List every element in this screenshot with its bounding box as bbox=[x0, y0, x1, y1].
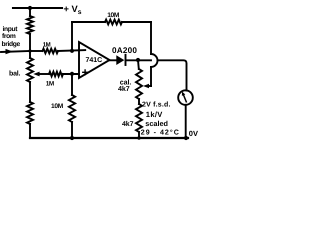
resistor 4k7 (meter shunt) bbox=[136, 104, 142, 132]
resistor 1M (non-inverting input) bbox=[49, 72, 63, 77]
wire: feedback top right segment bbox=[122, 21, 151, 23]
wire: R2 to 0V rail bbox=[29, 124, 31, 138]
wiper arm of bal pot bbox=[40, 73, 49, 75]
svg-text:4k7: 4k7 bbox=[122, 120, 134, 128]
wire: cal pot to 4k7 bbox=[138, 99, 140, 104]
svg-text:bal.: bal. bbox=[9, 70, 21, 78]
wire: feedback drop to cal wiper bbox=[150, 67, 152, 86]
diode OA200 bbox=[116, 55, 124, 65]
node: non-inverting input / 10M junction bbox=[70, 72, 74, 76]
resistor R1 (upper bridge arm) bbox=[27, 16, 33, 34]
resistor 1M (inverting input) bbox=[43, 49, 59, 54]
node: input junction bbox=[28, 49, 31, 52]
svg-text:input: input bbox=[3, 26, 19, 33]
wire: 1M to op-amp non-inverting input bbox=[63, 73, 79, 75]
wire: feedback right drop to hop bbox=[150, 22, 152, 54]
svg-text:1M: 1M bbox=[46, 81, 54, 88]
node: 10M / 0V rail junction bbox=[70, 136, 74, 140]
svg-text:scaled: scaled bbox=[145, 119, 168, 128]
potentiometer bal (balance) body bbox=[27, 58, 33, 82]
wire: op-amp output to diode bbox=[110, 59, 117, 61]
wire: feedback riser bbox=[71, 22, 73, 51]
svg-text:+ Vs: + Vs bbox=[64, 4, 82, 16]
wire: junction down to 10M bbox=[71, 74, 73, 95]
node: output / cal pot junction bbox=[136, 58, 140, 62]
svg-text:10M: 10M bbox=[107, 12, 120, 19]
node: inverting input / feedback junction bbox=[70, 49, 74, 53]
svg-text:0V: 0V bbox=[189, 129, 198, 138]
wire: 0V rail bbox=[30, 137, 188, 139]
node: meter / 0V rail junction bbox=[184, 136, 188, 140]
svg-text:0A200: 0A200 bbox=[112, 46, 137, 55]
wiper arm of cal pot bbox=[147, 85, 151, 87]
wire: feedback top left segment bbox=[72, 21, 105, 23]
wire: R1 to input node bbox=[29, 34, 31, 51]
wire: meter to 0V rail bbox=[185, 105, 187, 138]
wire: 10M to 0V rail bbox=[71, 122, 73, 138]
resistor 10M (non-inverting to 0V) bbox=[69, 95, 75, 122]
svg-text:4k7: 4k7 bbox=[118, 85, 130, 93]
resistor 10M (feedback) bbox=[105, 20, 122, 25]
svg-text:741C: 741C bbox=[86, 57, 103, 64]
meter M1 bbox=[178, 90, 193, 105]
op-amp 741C bbox=[79, 42, 110, 78]
wire hop: feedback crosses output wire bbox=[151, 54, 158, 67]
input arrow from bridge bbox=[1, 51, 30, 52]
wire: diode cathode to output node bbox=[126, 59, 151, 61]
svg-text:1k/V: 1k/V bbox=[146, 110, 163, 119]
wire: 1M to op-amp inverting input (minus dash inside) bbox=[58, 49, 85, 52]
op-amp non-inverting pin mark bbox=[83, 71, 88, 73]
svg-text:10M: 10M bbox=[51, 103, 64, 110]
wire: input node to 1M bbox=[30, 50, 42, 52]
wire: +Vs supply rail bbox=[13, 7, 62, 9]
svg-text:29 - 42°C: 29 - 42°C bbox=[141, 129, 180, 137]
wire: 4k7 to 0V rail bbox=[138, 132, 140, 138]
wire: output to meter bbox=[158, 60, 187, 90]
svg-text:from: from bbox=[2, 33, 16, 40]
node: 4k7 / 0V rail junction bbox=[137, 136, 140, 139]
svg-text:2V f.s.d.: 2V f.s.d. bbox=[142, 101, 171, 109]
wire: output node down to cal pot bbox=[137, 60, 140, 69]
wire: bal pot to R2 bbox=[29, 82, 31, 102]
potentiometer cal 4k7 body bbox=[136, 69, 142, 99]
svg-text:1M: 1M bbox=[43, 41, 51, 48]
wire: input node down to bal pot bbox=[29, 51, 31, 58]
node: supply rail / balance pot junction bbox=[28, 6, 32, 10]
resistor R2 (lower bridge arm) bbox=[27, 102, 33, 124]
wire: rail down to R1 bbox=[29, 8, 31, 16]
svg-text:bridge: bridge bbox=[2, 41, 21, 48]
